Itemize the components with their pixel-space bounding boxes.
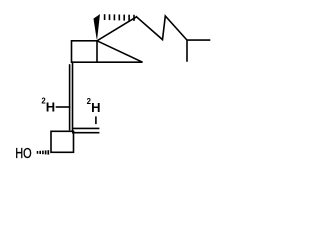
svg-text:HO: HO bbox=[15, 144, 31, 161]
svg-text:H: H bbox=[46, 99, 55, 114]
svg-text:H: H bbox=[91, 100, 100, 115]
